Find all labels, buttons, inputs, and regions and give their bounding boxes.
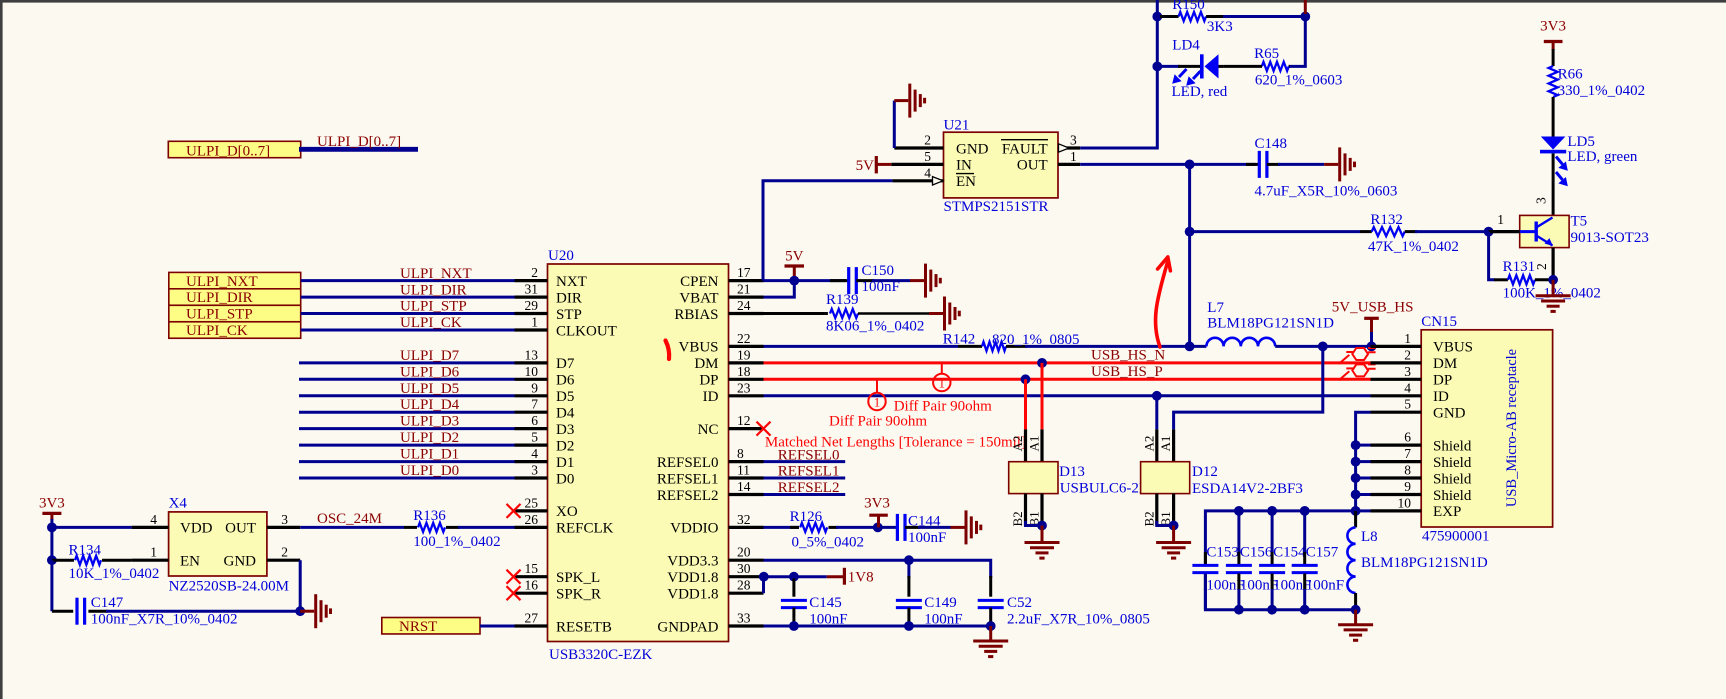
CN15 receptacle label [1504, 349, 1520, 507]
svg-text:DP: DP [1433, 373, 1452, 389]
inductor L7 [1206, 338, 1275, 347]
svg-text:2: 2 [924, 133, 931, 148]
diode array D13 body [1009, 462, 1058, 494]
svg-text:D3: D3 [556, 422, 574, 438]
svg-text:4.7uF_X5R_10%_0603: 4.7uF_X5R_10%_0603 [1255, 184, 1398, 200]
svg-text:13: 13 [525, 347, 539, 362]
designator T5 [1571, 214, 1588, 230]
port ULPI_D[0..7] [168, 141, 300, 159]
svg-text:GND: GND [956, 141, 989, 157]
wire R150 to 5V stub [1223, 15, 1305, 18]
port ULPI_CK [169, 322, 301, 339]
designator R131 [1503, 259, 1536, 275]
svg-text:5V: 5V [856, 158, 875, 174]
svg-text:R65: R65 [1254, 46, 1279, 62]
designator L7 [1207, 300, 1224, 316]
svg-text:10: 10 [1398, 495, 1412, 510]
ground at U21 GND [894, 84, 924, 118]
svg-text:Shield: Shield [1433, 455, 1472, 471]
T5 pin 1 stub [1489, 212, 1520, 232]
U20 pin 27 RESETB [515, 611, 612, 636]
svg-text:RESETB: RESETB [556, 619, 612, 635]
junction EXP [1351, 506, 1361, 516]
svg-text:1: 1 [1070, 149, 1077, 164]
svg-text:29: 29 [525, 298, 539, 313]
svg-text:7: 7 [1404, 446, 1411, 461]
designator R142 [943, 332, 976, 348]
svg-text:475900001: 475900001 [1422, 529, 1490, 545]
svg-text:D13: D13 [1059, 464, 1085, 480]
wire shield row 13 [1351, 490, 1371, 500]
junction FAULT/R150 [1152, 12, 1162, 22]
wire OSC_24M [300, 526, 404, 529]
net label REFSEL2 [778, 480, 840, 496]
U20 pin 25 XO [515, 495, 578, 520]
wire USB_HS_P [764, 378, 1371, 381]
svg-text:33: 33 [737, 611, 751, 626]
svg-text:4: 4 [924, 165, 931, 180]
wire ULPI_D3 [299, 427, 515, 430]
svg-text:REFSEL1: REFSEL1 [657, 471, 719, 487]
svg-text:1V8: 1V8 [848, 570, 874, 586]
svg-text:LD4: LD4 [1172, 38, 1200, 54]
IC U21 body [944, 132, 1059, 198]
wire D13 A1 to USB_HS_N [1041, 363, 1044, 430]
designator C156 [1240, 545, 1273, 561]
CN15 pin 9 Shield [1371, 479, 1472, 504]
svg-text:9: 9 [1404, 479, 1411, 494]
U21 pin 5 IN [891, 149, 972, 174]
svg-text:NXT: NXT [556, 274, 587, 290]
svg-text:VDD3.3: VDD3.3 [667, 554, 718, 570]
value 2.2uF_X7R_10%_0805 [1007, 612, 1150, 628]
svg-text:A1: A1 [1027, 436, 1042, 452]
capacitor C149 [896, 576, 922, 626]
svg-text:REFSEL2: REFSEL2 [657, 488, 719, 504]
svg-text:DP: DP [699, 373, 718, 389]
svg-text:L7: L7 [1207, 300, 1224, 316]
ground at R139 [929, 297, 959, 331]
part number 475900001 [1422, 529, 1490, 545]
svg-text:30: 30 [737, 561, 751, 576]
svg-text:C154: C154 [1273, 545, 1306, 561]
U20 pin 31 DIR [515, 282, 582, 307]
svg-text:1: 1 [150, 545, 157, 560]
svg-text:14: 14 [737, 479, 751, 494]
svg-text:20: 20 [737, 545, 751, 560]
svg-text:C150: C150 [862, 263, 895, 279]
svg-text:BLM18PG121SN1D: BLM18PG121SN1D [1207, 316, 1334, 332]
wire C144 to ground [918, 526, 951, 529]
junction 5V/C150 [789, 276, 799, 286]
resistor R132 wire [1190, 230, 1360, 233]
svg-text:XO: XO [556, 504, 578, 520]
svg-text:32: 32 [737, 512, 751, 527]
wire shield row 12 [1351, 473, 1371, 483]
svg-text:OUT: OUT [225, 521, 256, 537]
CN15 pin 6 Shield [1371, 430, 1472, 455]
U20 pin 5 D2 [515, 430, 575, 455]
svg-text:15: 15 [525, 561, 539, 576]
svg-text:STP: STP [556, 307, 582, 323]
svg-text:ULPI_D3: ULPI_D3 [400, 414, 459, 430]
svg-text:REFSEL0: REFSEL0 [778, 447, 840, 463]
designator C157 [1306, 545, 1339, 561]
diode array D12 body [1141, 462, 1190, 494]
svg-text:9013-SOT23: 9013-SOT23 [1571, 230, 1649, 246]
value 100nF (C153) [1206, 578, 1244, 594]
value 100nF (C154) [1273, 578, 1311, 594]
wire NRST to RESETB [480, 625, 515, 628]
resistor R139 [764, 309, 930, 318]
capacitor C144 [897, 514, 920, 541]
wire EXP row [1356, 509, 1371, 512]
U20 pin 14 REFSEL2 [657, 479, 764, 504]
designator R139 [826, 292, 859, 308]
svg-text:6: 6 [531, 413, 538, 428]
svg-text:Shield: Shield [1433, 471, 1472, 487]
value BLM18PG121SN1D (L8) [1361, 555, 1488, 571]
junction C149 bottom [904, 621, 914, 631]
svg-text:REFSEL2: REFSEL2 [778, 480, 840, 496]
svg-text:8: 8 [737, 446, 744, 461]
net label ULPI_D1 [400, 447, 459, 463]
svg-text:R126: R126 [790, 509, 823, 525]
svg-text:A2: A2 [1141, 436, 1156, 452]
designator C149 [924, 595, 957, 611]
U21 pin 4 EN [892, 165, 976, 190]
wire FAULT net [1080, 0, 1157, 148]
X4 pin 4 VDD [132, 512, 213, 537]
svg-text:25: 25 [525, 495, 539, 510]
ground at GNDPAD [973, 626, 1008, 657]
net label REFSEL1 [778, 464, 840, 480]
U20 pin 12 NC [698, 413, 764, 438]
transistor T5 body [1520, 215, 1569, 247]
svg-text:REFSEL1: REFSEL1 [778, 464, 840, 480]
D13 pin A1 stub [1027, 429, 1043, 461]
svg-text:21: 21 [737, 282, 751, 297]
part number NZ2520SB-24.00M [169, 579, 289, 595]
T5 pin 2 stub [1534, 248, 1553, 280]
value 330_1%_0402 [1558, 83, 1646, 99]
capacitor C153 [1192, 552, 1218, 610]
U21 pin 3 FAULT [1001, 133, 1080, 158]
U20 pin 10 D6 [515, 364, 575, 389]
svg-text:23: 23 [737, 380, 751, 395]
junction USB_HS_P/D13-A2 [1021, 374, 1031, 384]
svg-text:C148: C148 [1255, 136, 1288, 152]
CN15 pin 3 DP [1371, 364, 1453, 389]
junction VBUS/OUT rail [1185, 342, 1195, 352]
designator C147 [91, 595, 124, 611]
D12 pin B1 stub [1158, 494, 1174, 527]
svg-text:1: 1 [939, 376, 945, 390]
CN15 pin 10 EXP [1371, 495, 1462, 520]
resistor R150 [1160, 12, 1225, 21]
svg-text:BLM18PG121SN1D: BLM18PG121SN1D [1361, 555, 1488, 571]
wire ID net [764, 394, 1371, 397]
svg-text:3: 3 [531, 463, 538, 478]
resistor R131 [1489, 232, 1554, 285]
svg-text:11: 11 [737, 463, 750, 478]
svg-text:10K_1%_0402: 10K_1%_0402 [69, 566, 160, 582]
wire cap bank bottom rail [1205, 574, 1355, 610]
designator X4 [169, 496, 188, 512]
ground at D12 [1156, 526, 1191, 559]
wire USB_HS_N [764, 361, 1371, 364]
net label ULPI_D[0..7] [317, 134, 401, 150]
CN15 pin 4 ID [1371, 380, 1449, 405]
value 100nF (C156) [1240, 578, 1278, 594]
svg-text:ULPI_NXT: ULPI_NXT [186, 274, 258, 290]
wire cap bank top rail [1205, 511, 1355, 565]
svg-text:T5: T5 [1571, 214, 1588, 230]
svg-text:C157: C157 [1306, 545, 1339, 561]
svg-text:LED, green: LED, green [1567, 149, 1637, 165]
svg-text:8K06_1%_0402: 8K06_1%_0402 [826, 319, 924, 335]
value 100nF (C145) [809, 612, 847, 628]
resistor R142 [958, 342, 1027, 351]
value 100K_1%_0402 [1503, 286, 1601, 302]
svg-text:9: 9 [531, 380, 538, 395]
wire down to R65 [1289, 17, 1306, 67]
svg-text:26: 26 [525, 512, 539, 527]
wire 3V3 to X4 VDD [52, 526, 132, 529]
wire 3V3 to R66 [1552, 49, 1555, 66]
bus ULPI_D[0..7] [299, 147, 418, 152]
junction C145 top [789, 572, 799, 582]
resistor R66 [1549, 66, 1558, 97]
svg-text:C147: C147 [91, 595, 124, 611]
value 100_1%_0402 [413, 534, 501, 550]
net label USB_HS_N [1091, 348, 1165, 364]
svg-text:CN15: CN15 [1421, 314, 1457, 330]
junction T5 base/R131 [1484, 227, 1494, 237]
svg-text:RBIAS: RBIAS [674, 307, 718, 323]
annotation Matched Net Lengths [765, 435, 1026, 451]
svg-text:ULPI_DIR: ULPI_DIR [400, 282, 467, 298]
twisted pair symbol (DP) [1339, 364, 1376, 380]
wire VBAT to 5V [764, 281, 795, 298]
svg-text:8: 8 [1404, 463, 1411, 478]
svg-text:1: 1 [874, 395, 880, 409]
svg-text:100nF: 100nF [908, 530, 946, 546]
svg-text:GND: GND [224, 554, 257, 570]
ground at X4 [300, 594, 330, 628]
wire X4 GND down [299, 560, 302, 611]
svg-text:VBUS: VBUS [1433, 340, 1473, 356]
port NRST [382, 618, 480, 635]
svg-text:2: 2 [1404, 347, 1411, 362]
power 5V at U21 IN [856, 156, 892, 174]
svg-text:A1: A1 [1158, 436, 1173, 452]
U20 pin 6 D3 [515, 413, 575, 438]
power 1V8 [827, 568, 874, 586]
value 100nF (C149) [924, 612, 962, 628]
svg-text:24: 24 [737, 298, 751, 313]
connector CN15 body [1421, 330, 1552, 527]
svg-text:47K_1%_0402: 47K_1%_0402 [1368, 239, 1459, 255]
wire OUT rail down [1188, 164, 1191, 346]
junction ID/D12-A2 [1152, 391, 1162, 401]
svg-text:L8: L8 [1361, 529, 1378, 545]
junction at X4 ground [295, 606, 305, 616]
LED LD4 [1160, 54, 1223, 86]
junction T5 emitter/R131 [1548, 275, 1558, 285]
svg-text:DIR: DIR [556, 290, 582, 306]
net label ULPI_D2 [400, 430, 459, 446]
wire C148 to ground [1278, 163, 1324, 166]
D13 pin B2 stub [1010, 494, 1026, 527]
D12 pin A2 stub [1141, 429, 1157, 461]
value 10K_1%_0402 [69, 566, 160, 582]
svg-text:0_5%_0402: 0_5%_0402 [792, 535, 865, 551]
transistor T5 symbol [1520, 218, 1553, 246]
svg-text:4: 4 [1404, 380, 1411, 395]
value 620_1%_0603 [1255, 73, 1343, 89]
wire REFSEL0 [764, 460, 846, 463]
designator R136 [413, 508, 446, 524]
svg-text:330_1%_0402: 330_1%_0402 [1558, 83, 1646, 99]
svg-text:VDD: VDD [180, 521, 213, 537]
svg-text:U20: U20 [548, 248, 574, 264]
X4 pin 2 GND [224, 545, 301, 570]
resistor R65 [1223, 62, 1290, 71]
svg-text:ID: ID [1433, 389, 1449, 405]
part number USB3320C-EZK [549, 647, 653, 663]
designator C52 [1007, 595, 1032, 611]
svg-text:16: 16 [525, 578, 539, 593]
junction VBUS/D12-A1 [1318, 342, 1328, 352]
value 100nF (C150) [862, 279, 900, 295]
no-connect X on U20 pin 16 [507, 586, 521, 600]
svg-text:IN: IN [956, 158, 972, 174]
net label ULPI_D3 [400, 414, 459, 430]
svg-text:EN: EN [956, 174, 976, 190]
net label ULPI_D5 [400, 381, 459, 397]
svg-text:REFCLK: REFCLK [556, 521, 614, 537]
svg-text:USB_HS_P: USB_HS_P [1091, 364, 1163, 380]
wire ULPI_D1 [299, 460, 515, 463]
svg-text:CPEN: CPEN [680, 274, 719, 290]
power 5V (CPEN node) [785, 249, 805, 281]
CN15 pin 5 GND [1371, 397, 1466, 422]
value 47K_1%_0402 [1368, 239, 1459, 255]
svg-text:ULPI_STP: ULPI_STP [186, 307, 253, 323]
U20 pin 16 SPK_R [515, 578, 602, 603]
junction C145 bottom [789, 621, 799, 631]
designator D13 [1059, 464, 1085, 480]
resistor R134 [52, 556, 132, 565]
U20 pin 13 D7 [515, 347, 575, 372]
annotation Diff Pair 90ohm (1) [894, 399, 992, 415]
part number STMPS2151STR [944, 199, 1049, 215]
CN15 pin 8 Shield [1371, 463, 1472, 488]
oscillator X4 body [169, 512, 267, 576]
designator R134 [69, 543, 102, 559]
value 100nF_X7R_10%_0402 [91, 612, 238, 628]
junction OUT/C148 [1185, 160, 1195, 170]
red annotation slash near VBUS pin [666, 341, 670, 360]
wire C147 to ground [106, 610, 300, 613]
svg-text:3V3: 3V3 [1540, 19, 1566, 35]
wire VDD3.3 rail [764, 560, 991, 578]
value 820_1%_0805 [992, 332, 1080, 348]
net label ULPI_D4 [400, 397, 460, 413]
svg-text:A2: A2 [1010, 436, 1025, 452]
designator LD5 [1567, 134, 1595, 150]
power 3V3 (left) [39, 496, 65, 528]
U20 pin 20 VDD3.3 [667, 545, 763, 570]
value 3K3 [1207, 19, 1233, 35]
svg-text:C156: C156 [1240, 545, 1273, 561]
designator U20 [548, 248, 574, 264]
svg-text:ULPI_CK: ULPI_CK [186, 323, 248, 339]
U20 pin 24 RBIAS [674, 298, 763, 323]
wire D13 B2 to B1 [1026, 521, 1043, 526]
wire U21 GND up [893, 101, 896, 148]
svg-text:R132: R132 [1370, 212, 1403, 228]
CN15 pin 7 Shield [1371, 446, 1472, 471]
svg-text:19: 19 [737, 347, 751, 362]
designator R132 [1370, 212, 1403, 228]
net label ULPI_STP [400, 299, 467, 315]
X4 pin 3 OUT [225, 512, 300, 537]
junction USB_HS_N/D13-A1 [1037, 358, 1047, 368]
svg-text:22: 22 [737, 331, 751, 346]
svg-text:ULPI_CK: ULPI_CK [400, 315, 462, 331]
port ULPI_DIR [169, 289, 301, 306]
U20 pin 9 D5 [515, 380, 575, 405]
wire R126 to C144 [836, 526, 897, 529]
U20 pin 30 VDD1.8 [667, 561, 763, 586]
designator R65 [1254, 46, 1279, 62]
svg-text:X4: X4 [169, 496, 188, 512]
wire REFSEL2 [764, 493, 846, 496]
red annotation arrow [1155, 257, 1170, 347]
svg-text:B2: B2 [1141, 511, 1156, 526]
svg-text:C153: C153 [1206, 545, 1239, 561]
designator C145 [809, 595, 842, 611]
capacitor C145 [781, 577, 807, 626]
designator R150 [1172, 0, 1205, 13]
svg-text:R136: R136 [413, 508, 446, 524]
svg-text:OUT: OUT [1017, 158, 1048, 174]
svg-text:D0: D0 [556, 471, 574, 487]
U20 pin 7 D4 [515, 397, 575, 422]
svg-text:LD5: LD5 [1567, 134, 1595, 150]
svg-text:LED, red: LED, red [1172, 84, 1228, 100]
svg-text:100nF: 100nF [1306, 578, 1344, 594]
designator LD4 [1172, 38, 1200, 54]
junction 3V3/C144 [873, 523, 883, 533]
net label ULPI_D0 [400, 463, 459, 479]
U20 pin 1 CLKOUT [515, 315, 617, 340]
capacitor C154 [1259, 506, 1285, 615]
svg-text:ULPI_DIR: ULPI_DIR [186, 290, 253, 306]
U20 pin 18 DP [699, 364, 763, 389]
wire CN15 GND down [1356, 412, 1371, 511]
designator R66 [1558, 67, 1584, 83]
wire D13 A2 to USB_HS_P [1024, 379, 1027, 429]
svg-text:2.2uF_X7R_10%_0805: 2.2uF_X7R_10%_0805 [1007, 612, 1150, 628]
designator C144 [908, 514, 941, 530]
svg-text:ULPI_D5: ULPI_D5 [400, 381, 459, 397]
IC U20 body [548, 264, 729, 642]
inductor L8 [1347, 511, 1355, 610]
svg-text:Diff Pair 90ohm: Diff Pair 90ohm [829, 414, 927, 430]
